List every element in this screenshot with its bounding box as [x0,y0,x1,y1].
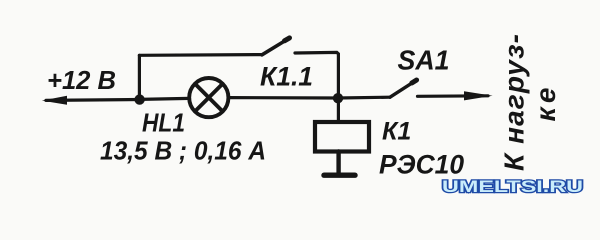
wire: +12V feed shaft (left arrow shaft to node A) [46,98,140,102]
wire: relay coil K1 to ground [336,152,340,173]
svg-text:ке: ке [530,88,561,122]
wire: node B down to relay coil K1 [337,98,340,122]
svg-text:РЭС10: РЭС10 [379,150,464,180]
svg-text:HL1: HL1 [142,108,185,138]
svg-text:+12 В: +12 В [47,65,116,95]
svg-text:К нагруз-: К нагруз- [499,34,530,171]
svg-text:К1: К1 [382,118,411,146]
wire: riser from node A up to relay contact branch [138,55,141,99]
wire: node A to lamp HL1 left terminal [140,98,190,99]
svg-text:SA1: SA1 [398,45,450,76]
switch SA1 arm end blob [412,80,417,83]
arrowhead: to load pointing right [464,91,493,100]
ground bar [324,172,355,177]
lamp HL1 (circle with X) [189,78,228,117]
svg-text:К1.1: К1.1 [260,62,313,92]
wire: output shaft to load arrow [418,94,489,98]
wire: upper branch left segment to contact K1.1 [139,53,262,57]
relay contact K1.1 movable arm (open) [262,39,289,55]
wire: K1.1 fixed contact and right drop to node B [295,52,338,98]
wire: node B to switch SA1 contact [338,96,390,100]
node B junction dot (relay coil / SA1) [333,93,343,103]
svg-text:13,5 В ; 0,16 А: 13,5 В ; 0,16 А [100,136,266,166]
switch SA1 movable arm (open) [390,81,416,98]
arrowhead: +12V pointing left [42,96,67,105]
node A junction dot (lamp/contact branch) [134,94,144,104]
wire: lamp HL1 right terminal to node B [228,96,338,100]
relay coil K1 (rectangle) [315,122,369,152]
svg-text:UMELTSI.RU: UMELTSI.RU [442,177,583,196]
relay contact K1.1 arm end blob [285,38,290,41]
